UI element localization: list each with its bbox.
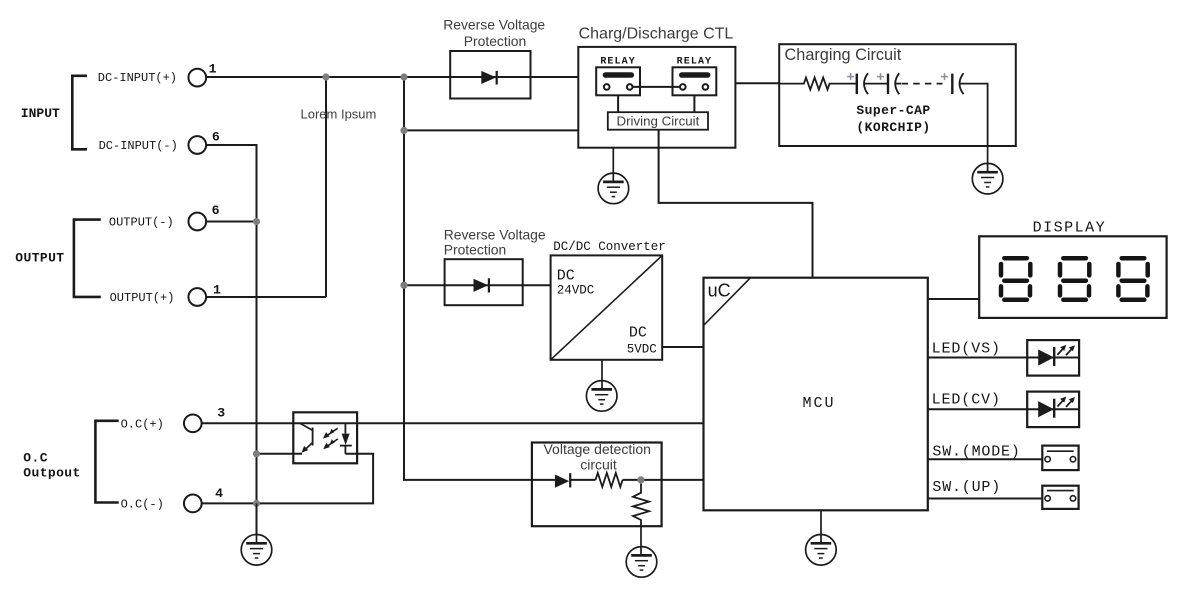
reverse voltage protection box 2 [445,259,523,305]
node junction voltage detection divider [637,476,644,483]
terminal DC-INPUT(+) circle pin 1 [188,69,206,87]
relay K1 box [596,67,640,95]
reverse voltage protection box 1 [450,51,530,99]
ground stem CTL [612,148,614,182]
optocoupler LED [340,423,352,454]
wire MCU to SW.(MODE) [928,458,1043,460]
svg-text:1: 1 [209,61,217,76]
MCU corner diagonal [704,278,751,326]
svg-text:DC: DC [629,324,647,341]
7-segment digit 1 [1001,258,1030,300]
resistor R1 in charging circuit [779,78,857,90]
diode D1 [481,71,498,85]
svg-text:Protection: Protection [464,33,527,49]
relay K1 contacts [604,84,610,90]
svg-text:SW.(UP): SW.(UP) [932,479,1001,496]
wire OUTPUT(+) row [206,296,326,298]
capacitor C3 [951,74,953,94]
wire vertical from DC-INPUT(+) to OUTPUT(+) [325,77,327,297]
capacitor C3 polarity + [941,73,948,80]
wire DC/DC output to MCU [662,346,703,348]
ground stem charging [987,146,989,172]
WIRES-LAYER [202,77,1079,535]
node junction at x326 on DC-INPUT(+) wire [322,73,329,80]
wire DC-INPUT(-) row and vertical bus x256 [206,145,256,535]
node junction x404 RVP2 branch [400,282,407,289]
svg-text:DC-INPUT(+): DC-INPUT(+) [98,71,177,85]
wire optocoupler emitter return [257,453,303,455]
DC/DC Converter box [551,255,663,359]
node junction at x404 on DC-INPUT(+) wire [400,73,407,80]
wire MCU to LED(CV) [928,408,1079,410]
svg-text:uC: uC [708,281,731,301]
svg-text:LED(CV): LED(CV) [932,391,1001,408]
Charg/Discharge CTL box [578,47,735,148]
svg-text:Outpout: Outpout [23,465,80,480]
LED(CV) box [1027,392,1079,428]
svg-text:24VDC: 24VDC [557,284,595,298]
svg-text:6: 6 [212,203,220,218]
svg-text:circuit: circuit [580,456,617,472]
wire driving circuit stem [658,130,660,148]
svg-text:LED(VS): LED(VS) [932,341,1001,358]
svg-text:RELAY: RELAY [600,56,636,67]
terminal O.C(-) circle pin 4 [184,495,202,513]
relay K2 coil bar [679,72,710,78]
INPUT bracket [72,76,87,150]
capacitor C1 [856,74,858,94]
svg-text:O.C(-): O.C(-) [121,498,164,512]
capacitor C2 [887,74,889,94]
wire relay K2 to driving circuit [693,95,695,112]
Driving Circuit box [608,112,708,130]
relay K2 box [673,67,717,95]
Voltage detection circuit box [532,443,662,527]
svg-text:(KORCHIP): (KORCHIP) [856,120,930,135]
7-segment digit 3 [1118,258,1147,300]
svg-text:OUTPUT(-): OUTPUT(-) [109,216,174,230]
svg-text:Charging Circuit: Charging Circuit [785,46,902,64]
ground stem O.C [256,503,258,543]
ground MCU [806,535,837,566]
resistor R2 horizontal [596,473,623,487]
svg-text:SW.(MODE): SW.(MODE) [932,443,1020,460]
svg-text:DC/DC Converter: DC/DC Converter [553,240,666,254]
wire driving circuit to MCU top [659,148,813,278]
svg-text:INPUT: INPUT [21,106,60,121]
wire to reverse voltage protection 2 and DC/DC [404,284,551,286]
ground CTL [598,173,629,204]
terminal O.C(+) circle pin 3 [184,414,202,432]
ground DC/DC [586,381,617,412]
svg-text:3: 3 [217,406,225,421]
wire relay K1 to driving circuit [617,95,619,112]
resistor R3 vertical [633,484,649,527]
DISPLAY box [979,236,1166,318]
terminal DC-INPUT(-) circle pin 6 [188,136,206,154]
svg-text:Reverse Voltage: Reverse Voltage [444,227,546,243]
svg-text:OUTPUT(+): OUTPUT(+) [110,291,175,305]
terminal OUTPUT(-) circle pin 6 [188,213,206,231]
capacitor C2 polarity + [877,73,884,80]
wire between relay contacts [633,86,680,88]
wire C1 to C2 [864,83,888,85]
diode D2 [474,278,491,292]
DC/DC diagonal [551,255,663,359]
diode D3 [555,473,571,488]
svg-text:OUTPUT: OUTPUT [15,251,64,266]
svg-text:Protection: Protection [444,242,507,258]
wire CTL to charging circuit [735,82,779,84]
optocoupler phototransistor [300,423,313,450]
Charging Circuit box [779,44,1016,146]
wire O.C(+) row to MCU [202,422,704,424]
SW.(UP) box [1042,486,1078,509]
svg-text:DISPLAY: DISPLAY [1033,219,1107,236]
svg-text:MCU: MCU [803,395,836,412]
node junction opto emitter [253,450,260,457]
7-segment digit 2 [1060,258,1089,300]
ground stem MCU [820,510,822,543]
wire O.C(-) row to optocoupler cathode [202,454,373,504]
terminal OUTPUT(+) circle pin 1 [188,288,206,306]
LED(CV) diode symbol [1038,397,1075,418]
SW.(MODE) box [1042,446,1078,471]
dashed wire C2 to C3 [895,83,901,85]
ground voltage detection [626,547,657,578]
wire CTL second input [404,129,578,131]
relay K2 contacts [680,84,686,90]
SW.(UP) contacts [1045,496,1050,501]
svg-text:O.C(+): O.C(+) [121,418,164,432]
ground charging circuit [972,163,1003,194]
optocoupler light arrows [323,428,338,449]
SW.(MODE) contacts [1045,457,1050,462]
O.C bracket [95,421,118,503]
wire MCU to SW.(UP) [928,498,1043,500]
wire vertical bus x404 down to voltage detection [404,77,555,480]
MCU box [704,278,928,511]
svg-text:Driving Circuit: Driving Circuit [617,113,700,128]
ground stem voltage detection [640,526,642,555]
wire MCU to LED(VS) [928,357,1079,359]
wire C3 down to ground [960,84,988,146]
wire OUTPUT(-) row [206,221,256,223]
svg-text:DC-INPUT(-): DC-INPUT(-) [99,139,178,153]
svg-text:RELAY: RELAY [677,56,713,67]
svg-text:Charg/Discharge CTL: Charg/Discharge CTL [579,26,734,43]
node junction O.C(-) [253,500,260,507]
node junction OUTPUT(-) [253,218,260,225]
ground O.C output [241,535,272,566]
JUNCTION DOTS [253,73,645,507]
node junction x404 CTL input 2 [400,127,407,134]
svg-text:Reverse Voltage: Reverse Voltage [443,17,545,33]
wire MCU to DISPLAY [928,298,979,300]
wire DC-INPUT(+) row to CTL [206,76,578,78]
svg-text:1: 1 [213,283,221,298]
svg-text:DC: DC [557,267,575,284]
LED(VS) box [1027,340,1079,376]
svg-text:O.C: O.C [23,450,48,465]
svg-text:5VDC: 5VDC [627,342,657,356]
OUTPUT bracket [74,220,101,297]
ground stem DC/DC [601,360,603,390]
svg-text:Super-CAP: Super-CAP [856,103,930,118]
svg-text:4: 4 [215,486,223,501]
LED(VS) diode symbol [1038,345,1075,366]
svg-text:Voltage detection: Voltage detection [543,441,650,457]
svg-text:Lorem Ipsum: Lorem Ipsum [301,106,377,121]
svg-text:6: 6 [212,129,220,144]
optocoupler U1 box [293,412,357,463]
capacitor C1 polarity + [847,73,854,80]
relay K1 coil bar [603,72,634,78]
